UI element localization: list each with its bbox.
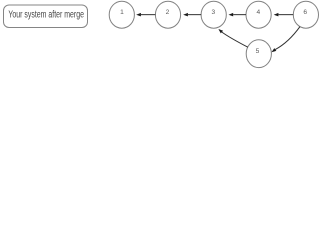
svg-text:2: 2 <box>166 9 170 16</box>
svg-text:5: 5 <box>256 48 260 55</box>
svg-text:4: 4 <box>256 9 260 16</box>
svg-text:1: 1 <box>120 9 124 16</box>
svg-text:6: 6 <box>303 9 307 16</box>
svg-text:3: 3 <box>211 9 215 16</box>
svg-text:Your system after merge: Your system after merge <box>8 10 84 21</box>
